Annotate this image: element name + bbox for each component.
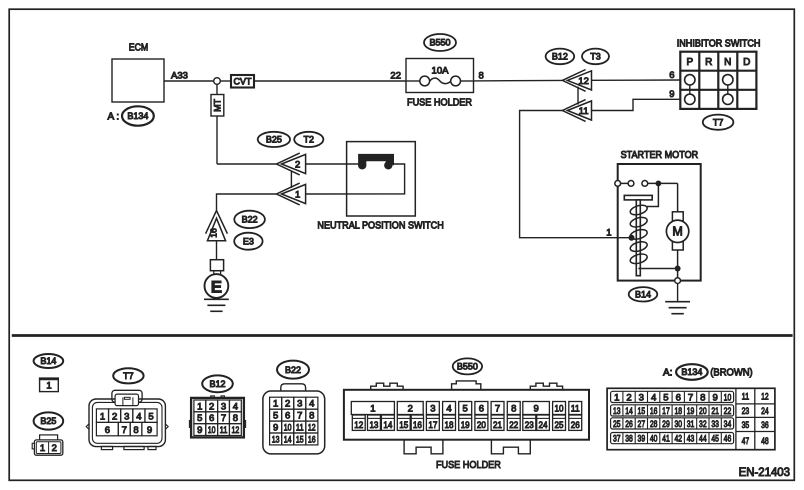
svg-text:6: 6 [285,411,290,422]
wire motor to ground node [677,250,679,278]
contact N row2 [723,75,733,85]
svg-text:26: 26 [571,420,580,431]
svg-text:9: 9 [197,425,202,436]
node starter pin 1 [629,235,635,241]
svg-text:14: 14 [284,434,292,445]
svg-text:42: 42 [674,434,682,445]
svg-text:22: 22 [724,406,732,417]
wire connector 11 to starter pin 1 [520,111,632,239]
svg-text:9: 9 [533,404,538,415]
terminal starter ground [675,278,681,284]
connector 2 [277,153,306,175]
connector label B22 [234,211,265,228]
svg-text:4: 4 [136,412,141,423]
svg-text:ECM: ECM [129,43,149,54]
svg-text:19: 19 [687,406,695,417]
svg-text:4: 4 [651,392,657,403]
svg-text:2: 2 [112,412,117,423]
svg-text:B25: B25 [40,416,56,426]
svg-text:7: 7 [221,413,226,424]
joint neck [214,271,221,275]
connector label B12 [546,49,575,65]
wire fuse pin 8 to connector 12 [474,70,563,81]
wire link connectors 2-1 [290,172,292,189]
svg-text:36: 36 [761,420,769,431]
wire connector 1 to connector 16 [217,194,277,211]
ECM U1 [112,43,164,103]
svg-text:48: 48 [761,436,769,447]
svg-text:5: 5 [463,404,468,415]
svg-text:7: 7 [495,404,500,415]
svg-text:4: 4 [446,404,451,415]
svg-text:A :: A : [108,111,120,122]
svg-text:38: 38 [625,434,633,445]
svg-text:5: 5 [148,412,153,423]
svg-text:14: 14 [383,420,392,431]
svg-text:5: 5 [197,413,202,424]
wire contact a-b [621,182,629,184]
svg-text:2: 2 [626,392,631,403]
svg-text:B22: B22 [285,365,301,375]
connector label B14 bottom [34,354,64,368]
connector label B12 bottom [202,375,233,392]
svg-text:N: N [724,57,731,68]
svg-text:22: 22 [509,420,518,431]
connector B134 pinout [607,388,775,449]
svg-text:1: 1 [40,443,45,454]
connector CVT [231,75,254,88]
wire node to CVT [220,80,231,82]
svg-text:17: 17 [662,406,670,417]
svg-text:28: 28 [650,419,658,430]
connector label A: B134 [108,106,154,125]
svg-text:4: 4 [309,399,314,410]
wire contact c to motor branch [648,182,678,184]
connector label T7 bottom [113,368,143,383]
connector 11 [562,100,591,122]
svg-text:T2: T2 [304,135,315,145]
svg-text:1: 1 [614,392,619,403]
connector label T7 [703,115,734,130]
svg-text:16: 16 [413,420,422,431]
svg-text:1: 1 [273,399,278,410]
svg-text:23: 23 [742,406,750,417]
solenoid coil L1 [629,203,648,265]
wire MT down to connector 2 [217,116,277,164]
connector label B25 [258,132,290,147]
svg-text:8: 8 [133,425,138,436]
svg-text:D: D [743,57,750,68]
svg-text:B22: B22 [242,215,258,225]
svg-text:T3: T3 [590,52,601,62]
solenoid plunger [624,195,652,275]
svg-text:B134: B134 [127,111,148,121]
svg-text:8: 8 [233,413,238,424]
svg-text:21: 21 [711,406,719,417]
wire connector 16 to joint [216,241,218,260]
inhibitor switch SW1 [677,39,761,109]
ground terminal E [205,274,229,298]
contact terminal a [615,181,621,187]
svg-text:4: 4 [233,401,238,412]
connector label B22 bottom [277,361,309,379]
svg-text:8: 8 [479,70,484,81]
node motor ground [675,266,681,272]
connector 12 [562,70,591,92]
svg-text:45: 45 [711,434,719,445]
svg-text:3: 3 [430,404,435,415]
svg-text:13: 13 [613,406,621,417]
svg-text:A33: A33 [171,70,188,81]
svg-text:STARTER MOTOR: STARTER MOTOR [621,150,699,161]
svg-text:7: 7 [688,392,693,403]
svg-text:5: 5 [663,392,668,403]
connector B12 pinout [189,396,245,438]
wire CVT to fuse pin 22 [254,70,406,81]
wire connector 2 to bridge [306,163,363,165]
contact terminal c [642,181,648,187]
svg-text:B550: B550 [457,362,478,372]
svg-text:3: 3 [221,401,226,412]
svg-text:3: 3 [639,392,644,403]
svg-text:26: 26 [625,419,633,430]
svg-text:34: 34 [724,419,732,430]
connector B550 fuse holder pinout [344,381,589,471]
contact terminal b [628,181,634,187]
svg-text:2: 2 [408,404,413,415]
wire contact link P [689,85,691,94]
wire bridge to connector 1 [306,164,405,194]
svg-text:18: 18 [445,420,454,431]
svg-text:15: 15 [399,420,408,431]
svg-text:25: 25 [613,419,621,430]
svg-text:37: 37 [613,434,621,445]
wire link connectors 12-11 [577,87,579,105]
svg-text:B550: B550 [429,38,450,48]
svg-text:20: 20 [699,406,707,417]
svg-text:NEUTRAL POSITION SWITCH: NEUTRAL POSITION SWITCH [317,220,443,231]
ground starter [665,302,690,314]
svg-text:B14: B14 [40,356,56,366]
svg-text:6: 6 [209,413,214,424]
svg-text:16: 16 [209,228,219,238]
svg-text:12: 12 [354,420,363,431]
svg-text:EN-21403: EN-21403 [739,467,790,479]
connector MT [211,95,224,117]
svg-text:(BROWN): (BROWN) [710,368,752,379]
svg-text:2: 2 [209,401,214,412]
svg-text:6: 6 [676,392,681,403]
svg-text:29: 29 [662,419,670,430]
svg-text:1: 1 [295,189,300,200]
svg-text:12: 12 [761,392,769,403]
svg-text:16: 16 [308,434,316,445]
svg-text:35: 35 [742,420,750,431]
svg-text:B12: B12 [209,379,225,389]
svg-text:20: 20 [477,420,486,431]
svg-text:1: 1 [100,412,105,423]
svg-text:7: 7 [122,425,127,436]
contact bridge [358,154,394,170]
svg-text:FUSE HOLDER: FUSE HOLDER [436,459,501,471]
svg-text:3: 3 [124,412,129,423]
svg-text:12: 12 [308,423,316,434]
svg-text:MT: MT [213,98,223,111]
svg-text:A:: A: [663,368,672,379]
wire to starter ground [677,284,679,302]
svg-text:11: 11 [571,404,580,415]
svg-text:46: 46 [724,434,732,445]
svg-text:13: 13 [369,420,378,431]
motor M [666,212,688,250]
svg-text:9: 9 [712,392,717,403]
svg-text:M: M [672,225,682,239]
fuse holder F1 10A [406,59,474,109]
connector label E3 [234,233,262,250]
svg-text:E: E [211,277,222,296]
svg-text:11: 11 [220,425,228,436]
svg-text:B134: B134 [681,367,702,377]
wire connector 12 to inhibitor pin 6 [592,70,681,81]
wire node to MT [216,84,218,94]
svg-text:6: 6 [105,425,110,436]
svg-text:8: 8 [309,411,314,422]
svg-text:FUSE HOLDER: FUSE HOLDER [407,98,472,109]
svg-text:T7: T7 [123,371,134,381]
joint connector [210,260,223,271]
svg-text:17: 17 [428,420,437,431]
svg-text:9: 9 [273,423,278,434]
svg-text:1: 1 [606,227,611,238]
svg-text:10: 10 [284,423,292,434]
connector label A: B134 (BROWN) [663,364,753,380]
svg-text:R: R [705,57,712,68]
svg-text:9: 9 [147,425,152,436]
connector 1 [277,183,306,205]
svg-text:6: 6 [479,404,484,415]
svg-text:22: 22 [390,70,401,81]
svg-text:24: 24 [761,406,769,417]
connector B14 pinout [39,379,59,392]
node junction [214,78,221,85]
svg-text:10: 10 [724,392,732,403]
wire tap down to coil [647,183,658,206]
svg-text:31: 31 [687,419,695,430]
svg-text:E3: E3 [243,236,254,246]
svg-text:44: 44 [699,434,707,445]
svg-text:32: 32 [699,419,707,430]
svg-text:43: 43 [687,434,695,445]
svg-text:47: 47 [742,436,750,447]
svg-text:12: 12 [231,425,239,436]
connector label B25 bottom [34,412,64,429]
wire contact link N [727,85,729,94]
svg-text:1: 1 [370,404,375,415]
svg-text:15: 15 [638,406,646,417]
connector B22 pinout [263,384,325,454]
svg-text:30: 30 [674,419,682,430]
svg-text:41: 41 [662,434,670,445]
svg-text:23: 23 [525,420,534,431]
svg-text:13: 13 [272,434,280,445]
svg-text:39: 39 [638,434,646,445]
svg-text:40: 40 [650,434,658,445]
wire coil to motor negative [638,268,674,270]
starter motor M1 [618,150,701,280]
svg-text:15: 15 [296,434,304,445]
svg-text:10: 10 [555,404,564,415]
svg-text:INHIBITOR SWITCH: INHIBITOR SWITCH [677,39,761,50]
svg-text:1: 1 [197,401,202,412]
neutral position switch SW2 [317,142,443,232]
svg-text:CVT: CVT [234,76,253,86]
svg-text:P: P [686,57,693,68]
svg-text:2: 2 [52,443,57,454]
svg-text:8: 8 [700,392,705,403]
svg-text:27: 27 [638,419,646,430]
svg-text:14: 14 [625,406,633,417]
svg-text:B25: B25 [266,135,282,145]
svg-text:7: 7 [297,411,302,422]
svg-text:21: 21 [493,420,502,431]
connector label B550 [424,34,456,51]
wire ECM pin A33 to node [164,70,214,81]
svg-text:16: 16 [650,406,658,417]
connector label T2 [294,132,323,147]
svg-text:10: 10 [208,425,216,436]
svg-text:2: 2 [295,159,300,170]
svg-text:12: 12 [578,76,589,87]
svg-text:T7: T7 [713,117,724,127]
contact P row2 [685,75,695,85]
svg-text:24: 24 [539,420,548,431]
contact N row3 [723,94,733,104]
svg-text:18: 18 [674,406,682,417]
svg-text:11: 11 [742,392,750,403]
svg-text:11: 11 [579,106,589,117]
svg-text:11: 11 [296,423,304,434]
connector label B550 bottom [453,358,482,374]
svg-text:33: 33 [711,419,719,430]
wire motor positive [677,183,679,211]
svg-text:2: 2 [285,399,290,410]
svg-text:5: 5 [273,411,278,422]
svg-text:1: 1 [46,381,51,392]
contact P row3 [685,94,695,104]
connector label T3 [582,49,609,65]
svg-text:B14: B14 [635,289,651,299]
connector label B14 [629,287,658,301]
svg-text:9: 9 [669,89,674,100]
svg-text:6: 6 [669,70,674,81]
ground E symbol [204,299,229,311]
node solenoid tap [656,181,662,187]
svg-text:B12: B12 [552,52,568,62]
svg-text:8: 8 [511,404,516,415]
connector B25 pinout [32,435,63,455]
svg-text:19: 19 [461,420,470,431]
svg-text:25: 25 [555,420,564,431]
wire connector 11 to inhibitor pin 9 [592,89,681,110]
connector T7 pinout [86,390,168,449]
connector 16 [206,211,228,241]
svg-text:3: 3 [297,399,302,410]
svg-text:10A: 10A [432,66,450,77]
